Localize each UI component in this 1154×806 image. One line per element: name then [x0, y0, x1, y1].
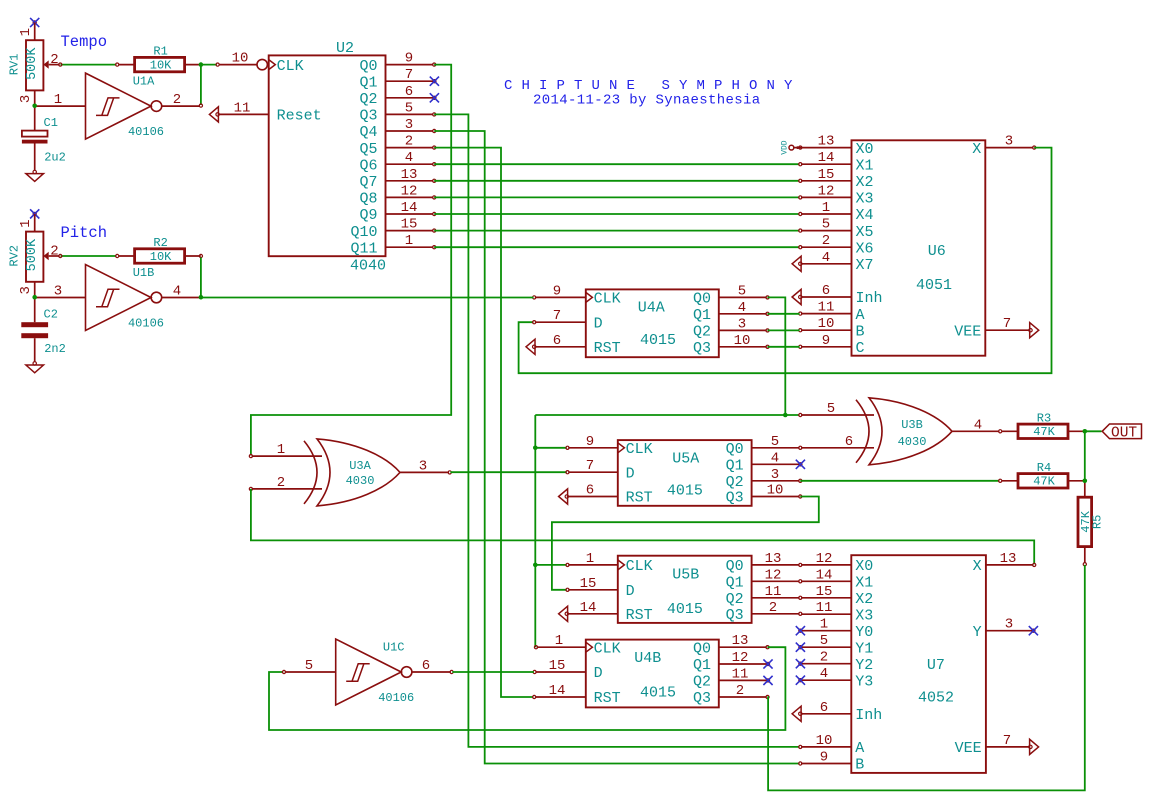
resistor R3 — [1002, 430, 1018, 432]
svg-text:2: 2 — [769, 600, 777, 616]
wire R3 junction down to R4 junction — [1084, 431, 1086, 481]
svg-text:Inh: Inh — [856, 290, 883, 307]
svg-text:10K: 10K — [150, 59, 172, 73]
svg-text:U7: U7 — [927, 657, 945, 674]
U4B RST pin 14 — [535, 696, 586, 698]
schmitt inverter U1C — [336, 639, 402, 705]
svg-text:3: 3 — [738, 316, 746, 332]
svg-text:Q1: Q1 — [693, 657, 711, 674]
svg-text:A: A — [855, 740, 864, 757]
svg-text:U5A: U5A — [672, 450, 699, 467]
svg-text:6: 6 — [553, 333, 561, 349]
U4B pin Q2 (11) — [719, 679, 767, 681]
svg-text:1: 1 — [822, 200, 830, 216]
svg-text:6: 6 — [422, 658, 430, 674]
svg-text:7: 7 — [405, 67, 413, 83]
U7 pin B (9) — [801, 763, 851, 765]
global label OUT — [1102, 424, 1141, 439]
U1A input pin 1 — [35, 105, 86, 107]
svg-text:CLK: CLK — [594, 291, 621, 308]
svg-text:6: 6 — [822, 283, 830, 299]
svg-text:Y1: Y1 — [855, 640, 873, 657]
wire U2.Q4 to U7.B — [434, 131, 799, 764]
svg-text:4015: 4015 — [640, 685, 676, 702]
svg-text:11: 11 — [816, 600, 833, 616]
svg-text:4: 4 — [738, 300, 746, 316]
svg-text:B: B — [855, 757, 864, 774]
U3B output pin 4 — [952, 430, 1000, 432]
svg-text:X2: X2 — [855, 591, 873, 608]
svg-text:4: 4 — [405, 150, 413, 166]
U1C input pin 5 — [285, 671, 336, 673]
svg-text:D: D — [594, 665, 603, 682]
svg-text:X6: X6 — [856, 240, 874, 257]
svg-text:R1: R1 — [153, 45, 167, 59]
capacitor C1 (polarized) — [34, 106, 36, 131]
U2 pin Q3 (5) — [386, 113, 434, 115]
svg-text:2: 2 — [173, 92, 181, 108]
svg-text:RST: RST — [626, 490, 653, 507]
svg-text:Q3: Q3 — [693, 690, 711, 707]
U5A CLK pin 9 — [568, 447, 618, 449]
svg-text:Q0: Q0 — [359, 58, 377, 75]
U1B input pin 3 — [35, 297, 86, 299]
wire U2.Q11 to U6.X6 — [434, 246, 799, 248]
U6 pin X7 (4) — [801, 263, 852, 265]
wire U4B.Q3 to R5 bottom — [768, 565, 1085, 791]
U6 pin X2 (15) — [801, 180, 852, 182]
ground under C2 — [33, 362, 36, 365]
svg-text:6: 6 — [820, 700, 828, 716]
svg-text:CLK: CLK — [277, 58, 304, 75]
svg-text:40106: 40106 — [128, 125, 164, 139]
svg-text:6: 6 — [845, 434, 853, 450]
svg-text:C1: C1 — [44, 116, 58, 130]
svg-text:X: X — [972, 141, 981, 158]
U4A pin Q0 (5) — [719, 296, 767, 298]
svg-text:X3: X3 — [856, 191, 874, 208]
svg-text:Q8: Q8 — [359, 191, 377, 208]
wire U2.Q0 to U3A input 1 — [251, 65, 451, 456]
svg-text:14: 14 — [580, 600, 597, 616]
svg-text:14: 14 — [549, 683, 566, 699]
svg-text:1: 1 — [555, 633, 563, 649]
junction dots — [32, 104, 37, 109]
svg-text:Q0: Q0 — [693, 640, 711, 657]
U7 pin X2 (15) — [801, 597, 851, 599]
U7 pin Y3 (4) — [801, 679, 851, 681]
svg-text:1: 1 — [405, 233, 413, 249]
resistor R4 — [1002, 480, 1018, 482]
svg-text:Y0: Y0 — [855, 624, 873, 641]
U2 pin Q2 (6) — [386, 97, 434, 99]
svg-text:Q7: Q7 — [359, 174, 377, 191]
wire R3 to OUT flag — [1085, 430, 1102, 432]
svg-text:14: 14 — [401, 200, 418, 216]
U4A pin Q3 (10) — [719, 346, 767, 348]
wire U2.Q5 to U4B.RST — [434, 148, 533, 697]
U5A pin Q1 (4) — [752, 463, 800, 465]
svg-text:5: 5 — [820, 633, 828, 649]
U6 pin X5 (5) — [801, 230, 852, 232]
svg-text:5: 5 — [305, 658, 313, 674]
svg-text:10K: 10K — [150, 250, 172, 264]
svg-text:12: 12 — [765, 567, 782, 583]
U5B pin Q3 (2) — [752, 613, 800, 615]
U6 pin B (10) — [801, 329, 852, 331]
svg-text:1: 1 — [54, 92, 62, 108]
U3B input pin 5 — [801, 414, 874, 416]
svg-text:X3: X3 — [855, 607, 873, 624]
svg-text:Q0: Q0 — [726, 558, 744, 575]
U5B pin Q2 (11) — [752, 597, 800, 599]
svg-text:X0: X0 — [855, 558, 873, 575]
svg-text:Q2: Q2 — [726, 591, 744, 608]
svg-text:R4: R4 — [1037, 461, 1051, 475]
svg-text:2: 2 — [50, 244, 58, 260]
svg-text:15: 15 — [816, 584, 833, 600]
U7 pin Inh (6) — [801, 713, 851, 715]
svg-text:Q2: Q2 — [693, 324, 711, 341]
U4A RST pin 6 — [535, 346, 586, 348]
wire U2.Q10 to U6.X5 — [434, 230, 799, 232]
svg-text:11: 11 — [765, 584, 782, 600]
U4A pin Q2 (3) — [719, 329, 767, 331]
svg-text:1: 1 — [18, 219, 34, 227]
wire to U5B CLK — [535, 564, 567, 566]
svg-text:VDD: VDD — [781, 140, 790, 155]
svg-text:Y2: Y2 — [855, 657, 873, 674]
potentiometer RV2 — [26, 232, 43, 282]
wire to U5A CLK — [535, 447, 567, 449]
svg-text:Q3: Q3 — [693, 340, 711, 357]
svg-text:9: 9 — [822, 333, 830, 349]
svg-text:Q5: Q5 — [359, 141, 377, 158]
svg-text:R3: R3 — [1037, 411, 1051, 425]
svg-text:11: 11 — [818, 300, 835, 316]
wire U3A.2 to U7.X net — [251, 489, 1034, 564]
svg-text:U5B: U5B — [672, 567, 699, 584]
analog mux U7 4052 — [851, 555, 986, 773]
wire U5A.Q2 to R4 — [800, 480, 999, 482]
U7 pin A (10) — [801, 746, 851, 748]
svg-text:13: 13 — [732, 633, 749, 649]
U2 pin Q1 (7) — [386, 80, 434, 82]
svg-text:11: 11 — [732, 666, 749, 682]
svg-text:Q2: Q2 — [693, 674, 711, 691]
svg-text:6: 6 — [405, 84, 413, 100]
ground under C1 — [33, 170, 36, 173]
U7 pin VEE (7) — [986, 746, 1030, 748]
svg-text:4030: 4030 — [346, 474, 375, 488]
U6 pin X (3) — [985, 147, 1033, 149]
svg-text:10: 10 — [232, 51, 249, 67]
U2 pin Q4 (3) — [386, 130, 434, 132]
svg-text:13: 13 — [765, 551, 782, 567]
XOR gate U3B — [869, 398, 952, 465]
U5B RST pin 14 — [568, 613, 618, 615]
XOR gate U3A — [317, 439, 400, 506]
svg-text:CLK: CLK — [594, 640, 621, 657]
svg-text:40106: 40106 — [378, 691, 414, 705]
svg-text:500K: 500K — [25, 238, 40, 271]
svg-text:7: 7 — [1003, 733, 1011, 749]
U6 pin Inh (6) — [801, 296, 852, 298]
svg-text:15: 15 — [818, 167, 835, 183]
U5A D pin 7 — [568, 471, 618, 473]
svg-text:1: 1 — [18, 28, 34, 36]
svg-text:U4B: U4B — [634, 650, 661, 667]
svg-text:5: 5 — [738, 283, 746, 299]
U2 pin Q10 (15) — [386, 230, 434, 232]
U4A pin Q1 (4) — [719, 313, 767, 315]
svg-text:VEE: VEE — [954, 323, 981, 340]
wire U1C output to U4B.D — [452, 671, 534, 673]
wire R2 right down to U1B output — [199, 254, 202, 257]
svg-text:Q1: Q1 — [693, 307, 711, 324]
svg-text:3: 3 — [1005, 134, 1013, 150]
U6 pin C (9) — [801, 346, 852, 348]
svg-text:Q3: Q3 — [726, 607, 744, 624]
svg-text:Q3: Q3 — [726, 490, 744, 507]
U3A output pin 3 — [400, 471, 449, 473]
svg-text:Q1: Q1 — [726, 458, 744, 475]
svg-text:5: 5 — [827, 401, 835, 417]
svg-text:3: 3 — [54, 284, 62, 300]
U7 pin X (13) — [986, 564, 1034, 566]
svg-text:3: 3 — [1005, 617, 1013, 633]
svg-text:13: 13 — [1000, 551, 1017, 567]
U1A output pin 2 — [162, 105, 200, 107]
svg-text:X: X — [973, 558, 982, 575]
svg-text:4051: 4051 — [916, 277, 952, 294]
wire U4B.Q0 feedback to U1C input — [269, 647, 785, 730]
U6 pin A (11) — [801, 313, 852, 315]
svg-text:1: 1 — [586, 551, 594, 567]
svg-text:X1: X1 — [856, 157, 874, 174]
svg-text:Y3: Y3 — [855, 673, 873, 690]
U1B output pin 4 — [162, 297, 200, 299]
no-connect on RV1 pin 1 — [33, 21, 36, 24]
U4B pin Q3 (2) — [719, 696, 767, 698]
wire U2.Q3 to U7.A — [434, 114, 799, 747]
svg-text:10: 10 — [767, 483, 784, 499]
U4B D pin 15 — [535, 671, 586, 673]
svg-text:4: 4 — [820, 666, 828, 682]
svg-text:D: D — [626, 465, 635, 482]
wire junction to U2 CLK pin — [201, 64, 217, 66]
counter U2 4040 — [269, 55, 386, 256]
schmitt inverter U1A — [86, 73, 152, 139]
svg-text:U6: U6 — [928, 243, 946, 260]
schmitt inverter U1B — [86, 265, 152, 331]
svg-text:Q2: Q2 — [359, 91, 377, 108]
shift register U4A 4015 — [586, 289, 719, 357]
svg-text:3: 3 — [405, 117, 413, 133]
svg-text:4052: 4052 — [918, 689, 954, 706]
U5B D pin 15 — [568, 589, 618, 591]
svg-text:9: 9 — [586, 434, 594, 450]
svg-text:2: 2 — [822, 233, 830, 249]
U5B pin Q1 (12) — [752, 580, 800, 582]
svg-text:9: 9 — [405, 51, 413, 67]
wire RV2 wiper to R2 — [61, 255, 117, 257]
wire U3A out to U5A.D — [450, 471, 566, 473]
resistor R2 — [118, 255, 134, 257]
U2 pin Q7 (13) — [386, 180, 434, 182]
svg-text:5: 5 — [822, 217, 830, 233]
svg-text:U3A: U3A — [349, 459, 371, 473]
svg-text:X2: X2 — [856, 174, 874, 191]
wire U4A.Q3 to U6.C — [768, 346, 800, 348]
svg-text:RST: RST — [626, 607, 653, 624]
U2 CLK pin 10 (inverted clock) — [219, 64, 257, 66]
svg-text:6: 6 — [586, 483, 594, 499]
svg-text:Q2: Q2 — [726, 474, 744, 491]
svg-text:11: 11 — [234, 100, 251, 116]
wire U2.Q8 to U6.X3 — [434, 196, 799, 198]
U4B pin Q0 (13) — [719, 646, 767, 648]
svg-text:4040: 4040 — [350, 258, 386, 275]
U7 pin Y0 (1) — [801, 630, 851, 632]
wire U4A.Q0 to clock bus / U3B.5 — [768, 297, 786, 415]
svg-text:2014-11-23 by Synaesthesia: 2014-11-23 by Synaesthesia — [533, 93, 761, 109]
svg-text:Q11: Q11 — [350, 240, 377, 257]
svg-text:15: 15 — [401, 217, 418, 233]
svg-text:R5: R5 — [1090, 515, 1104, 529]
svg-text:Inh: Inh — [855, 707, 882, 724]
svg-text:Q10: Q10 — [350, 224, 377, 241]
svg-text:B: B — [856, 323, 865, 340]
svg-text:CLK: CLK — [626, 441, 653, 458]
svg-text:D: D — [626, 583, 635, 600]
svg-text:47K: 47K — [1033, 425, 1055, 439]
no-connect on RV2 pin 1 — [33, 212, 36, 215]
svg-text:4015: 4015 — [640, 332, 676, 349]
svg-text:4: 4 — [173, 284, 181, 300]
analog mux U6 4051 — [852, 140, 986, 355]
svg-text:Y: Y — [973, 624, 982, 641]
wire clock bus horizontal to U3B pin 5 — [535, 414, 799, 416]
capacitor C2 — [34, 297, 36, 322]
svg-text:VEE: VEE — [955, 740, 982, 757]
svg-text:1: 1 — [820, 617, 828, 633]
svg-text:OUT: OUT — [1111, 426, 1137, 442]
U2 pin Q8 (12) — [386, 196, 434, 198]
svg-text:12: 12 — [732, 650, 749, 666]
U2 pin Q11 (1) — [386, 246, 434, 248]
U5A pin Q0 (5) — [752, 447, 800, 449]
wire U4A.Q1 to U6.A — [768, 313, 800, 315]
U6 pin X0 (13) — [801, 147, 852, 149]
resistor R1 — [118, 64, 134, 66]
svg-text:9: 9 — [553, 283, 561, 299]
svg-text:13: 13 — [818, 134, 835, 150]
U5B pin Q0 (13) — [752, 564, 800, 566]
svg-text:4015: 4015 — [667, 483, 703, 500]
svg-text:Reset: Reset — [277, 108, 322, 125]
svg-text:15: 15 — [580, 576, 597, 592]
U1C output pin 6 — [412, 671, 451, 673]
power flag VDD at U6.X0 — [794, 147, 801, 149]
potentiometer RV1 — [26, 40, 43, 90]
shift register U5A 4015 — [618, 440, 752, 506]
svg-text:40106: 40106 — [128, 316, 164, 330]
svg-text:7: 7 — [586, 458, 594, 474]
svg-text:CLK: CLK — [626, 558, 653, 575]
svg-text:X4: X4 — [856, 207, 874, 224]
U2 pin Q0 (9) — [386, 64, 434, 66]
U6 pin X3 (12) — [801, 196, 852, 198]
U3B input pin 6 — [801, 447, 874, 449]
svg-text:4: 4 — [822, 250, 830, 266]
svg-text:U4A: U4A — [638, 300, 665, 317]
svg-text:5: 5 — [405, 100, 413, 116]
U7 pin X1 (14) — [801, 580, 851, 582]
U7 pin X0 (12) — [801, 564, 851, 566]
svg-text:U1B: U1B — [133, 266, 155, 280]
U4B CLK pin 1 — [537, 646, 586, 648]
svg-text:10: 10 — [816, 733, 833, 749]
U2 pin Q9 (14) — [386, 213, 434, 215]
U6 pin X4 (1) — [801, 213, 852, 215]
svg-text:X7: X7 — [856, 257, 874, 274]
wire U1B output to U4A CLK — [201, 297, 534, 299]
wire junction down to U1A output — [200, 65, 202, 105]
svg-text:2u2: 2u2 — [44, 151, 66, 165]
svg-text:2: 2 — [820, 650, 828, 666]
svg-text:15: 15 — [549, 658, 566, 674]
U7 pin Y1 (5) — [801, 646, 851, 648]
U7 pin Y (3) — [986, 630, 1032, 632]
U2 pin Q5 (2) — [386, 147, 434, 149]
U6 pin X6 (2) — [801, 246, 852, 248]
svg-text:3: 3 — [771, 467, 779, 483]
U4A D pin 7 — [535, 321, 586, 323]
svg-text:3: 3 — [18, 286, 34, 294]
svg-text:3: 3 — [18, 95, 34, 103]
svg-text:D: D — [594, 315, 603, 332]
wire U2.Q6 to U6.X1 — [434, 163, 799, 165]
U5A RST pin 6 — [568, 496, 618, 498]
svg-text:4: 4 — [974, 417, 982, 433]
shift register U5B 4015 — [618, 556, 752, 623]
svg-text:A: A — [856, 307, 865, 324]
svg-text:2: 2 — [405, 134, 413, 150]
U4B pin Q1 (12) — [719, 663, 767, 665]
shift register U4B 4015 — [586, 640, 719, 708]
svg-text:7: 7 — [553, 308, 561, 324]
svg-text:X0: X0 — [856, 141, 874, 158]
U3A input pin 2 — [252, 488, 322, 490]
svg-text:RV1: RV1 — [8, 54, 22, 76]
svg-text:Q1: Q1 — [726, 575, 744, 592]
resistor R5 — [1084, 481, 1086, 498]
svg-text:14: 14 — [816, 567, 833, 583]
svg-text:Q6: Q6 — [359, 157, 377, 174]
svg-text:U3B: U3B — [901, 418, 923, 432]
U5B CLK pin 1 — [568, 564, 618, 566]
svg-text:1: 1 — [277, 442, 285, 458]
wire U4A.Q2 to U6.B — [768, 329, 800, 331]
svg-text:10: 10 — [818, 316, 835, 332]
svg-text:3: 3 — [419, 458, 427, 474]
svg-text:13: 13 — [401, 167, 418, 183]
svg-text:4: 4 — [771, 450, 779, 466]
wire U5A.Q3 to U5B.D — [552, 497, 819, 590]
svg-text:RST: RST — [594, 340, 621, 357]
U5A pin Q3 (10) — [752, 496, 800, 498]
